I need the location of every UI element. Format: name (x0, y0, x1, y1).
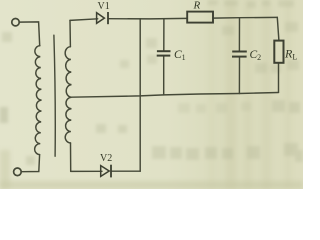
middle rail (center tap) (71, 93, 279, 98)
RL bottom lead (278, 63, 280, 93)
bottom shadow band (0, 181, 303, 189)
diode V1 (97, 12, 108, 24)
diode V2 (101, 165, 111, 178)
top rail: V1 cathode to R box (109, 17, 187, 20)
paper background (0, 0, 303, 189)
svg-text:V2: V2 (100, 153, 112, 164)
secondary bottom lead (70, 143, 72, 171)
C2 bottom lead (238, 57, 240, 94)
right branch down to RL top (277, 17, 279, 40)
svg-text:V1: V1 (98, 1, 110, 12)
capacitor C1 plates (157, 51, 171, 55)
secondary winding S1 (65, 47, 71, 143)
secondary top lead (69, 20, 71, 46)
primary winding P1 (35, 46, 42, 155)
resistor RL box (274, 41, 283, 63)
V2 return vertical to top rail (139, 19, 141, 171)
capacitor C2 plates (232, 52, 247, 57)
svg-text:R: R (193, 0, 201, 12)
C1 top lead (163, 19, 165, 51)
bottom wire: V2 cathode to corner (112, 170, 140, 172)
C2 top lead (238, 18, 240, 52)
terminal bottom-left (14, 168, 22, 176)
bottom wire: secondary bottom to V2 anode (71, 170, 102, 172)
wire primary bottom to terminal 2 (21, 155, 39, 172)
resistor R box (187, 12, 213, 23)
top rail: R box to right corner (213, 16, 277, 19)
bleedthrough text blobs (120, 0, 299, 73)
right-side vertical streaks (208, 0, 292, 189)
transformer core (54, 35, 55, 156)
wire terminal1 to primary top (19, 22, 40, 46)
C1 bottom lead (163, 56, 165, 95)
top rail: secondary to V1 anode (70, 19, 98, 21)
terminal top-left (12, 19, 19, 26)
